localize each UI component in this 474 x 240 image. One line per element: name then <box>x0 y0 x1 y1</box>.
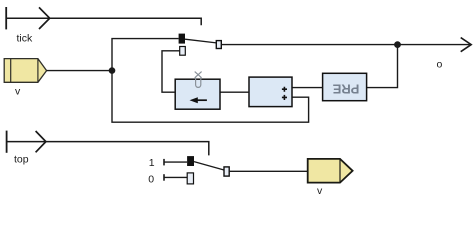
switch S1 output port <box>216 41 221 49</box>
node A junction dot <box>109 67 116 74</box>
wire top line to switch S2 control <box>7 142 209 156</box>
switch S2 output port <box>224 167 229 176</box>
tick clock chevron <box>39 7 50 29</box>
output o chevron <box>461 38 472 52</box>
switch S2 true input (filled) <box>187 156 194 166</box>
wire delay U1 output up to switch S1 false input <box>162 51 180 92</box>
output port v <box>308 159 353 183</box>
node B junction dot <box>394 41 401 48</box>
svg-text:top: top <box>14 153 29 165</box>
svg-text:o: o <box>437 59 443 71</box>
wire v to node A <box>47 70 112 72</box>
pre operator U3 box <box>323 73 367 100</box>
svg-text:v: v <box>317 185 323 197</box>
svg-text:PRE: PRE <box>332 81 359 96</box>
adder U2 box <box>249 77 292 107</box>
switch S2 blade <box>194 162 224 170</box>
wire S1 output to node B <box>221 44 397 46</box>
adder U2 pin label + (upper) <box>282 87 287 92</box>
svg-text:0: 0 <box>148 173 154 185</box>
wire node B to output o <box>398 44 470 46</box>
svg-text:v: v <box>15 86 21 98</box>
clock input tick bar <box>5 7 7 29</box>
switch S1 true input (filled) <box>179 34 185 44</box>
constant 0 source bar <box>163 174 165 181</box>
switch S1 blade <box>185 39 216 43</box>
constant 1 source bar <box>163 159 165 166</box>
wire constant 1 to switch S2 true input <box>164 161 187 163</box>
delay U1 left arrow glyph <box>190 97 207 103</box>
wire node A bottom feedback to adder U2 lower input <box>112 71 309 123</box>
delay U1 box <box>175 79 220 109</box>
input port v <box>4 59 46 83</box>
clock input top bar <box>6 131 8 153</box>
svg-text:1: 1 <box>149 157 155 169</box>
adder U2 pin label + (lower) <box>282 95 287 100</box>
top clock chevron <box>36 131 46 152</box>
wire tick line <box>6 18 201 25</box>
wire constant 0 to switch S2 false input <box>164 176 187 178</box>
wire PRE U3 output to adder U2 upper input <box>292 87 322 89</box>
wire node B down to PRE U3 input <box>367 45 398 88</box>
switch S2 false input (open) <box>187 173 193 184</box>
wire node A up to switch S1 true input <box>112 39 179 71</box>
switch S1 false input (open) <box>180 47 186 56</box>
wire adder U2 output to delay U1 input <box>220 91 249 93</box>
svg-text:tick: tick <box>17 33 34 45</box>
delay U1 clip icon <box>195 72 202 88</box>
wire S2 output to output port v <box>229 170 308 172</box>
